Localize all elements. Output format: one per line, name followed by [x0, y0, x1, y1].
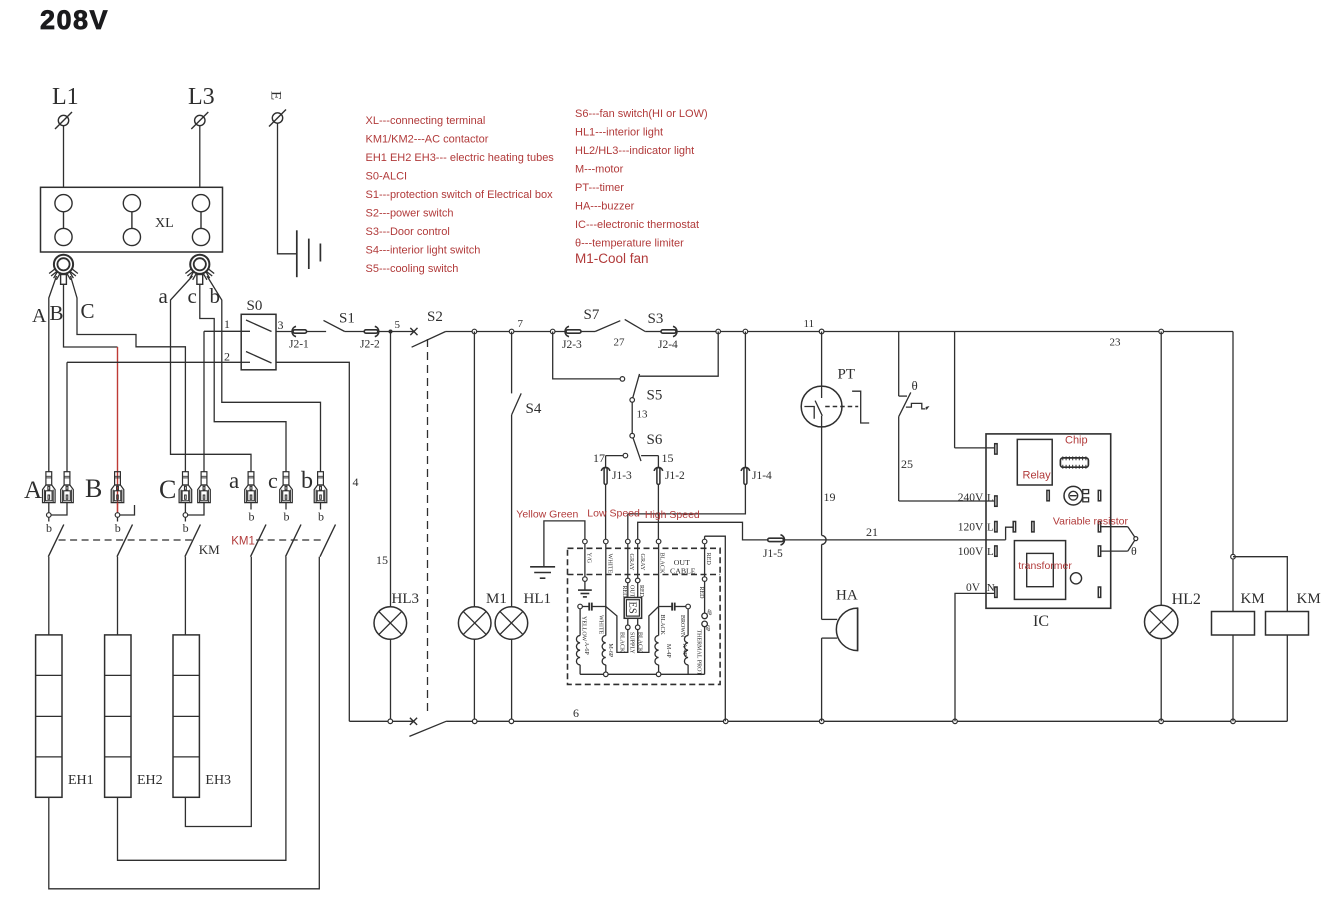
- svg-text:b: b: [115, 521, 121, 535]
- svg-text:θ: θ: [1131, 544, 1137, 558]
- svg-text:6: 6: [573, 706, 579, 720]
- svg-text:WHITE: WHITE: [606, 554, 613, 574]
- svg-text:θ: θ: [912, 378, 918, 393]
- svg-text:BLACK: BLACK: [637, 632, 643, 653]
- svg-text:IC---electronic thermostat: IC---electronic thermostat: [575, 219, 699, 231]
- svg-text:Relay: Relay: [1023, 470, 1052, 482]
- svg-text:HL3: HL3: [392, 591, 420, 607]
- svg-text:Chip: Chip: [1065, 435, 1088, 447]
- svg-text:C: C: [81, 299, 95, 323]
- svg-text:A-4P: A-4P: [681, 644, 687, 657]
- svg-text:BLACK: BLACK: [659, 553, 666, 575]
- svg-text:RED: RED: [621, 586, 627, 599]
- svg-text:HA---buzzer: HA---buzzer: [575, 201, 635, 213]
- svg-text:5: 5: [395, 319, 401, 331]
- svg-text:Low Speed: Low Speed: [587, 508, 640, 520]
- svg-text:b: b: [318, 510, 324, 524]
- svg-text:J2-3: J2-3: [562, 339, 582, 351]
- svg-text:23: 23: [1110, 337, 1122, 349]
- svg-text:N: N: [987, 582, 995, 594]
- svg-text:GRAY: GRAY: [639, 554, 646, 571]
- svg-text:THERMAL PROT: THERMAL PROT: [695, 630, 701, 676]
- svg-text:J1-4: J1-4: [752, 470, 772, 482]
- svg-text:ES: ES: [626, 602, 637, 614]
- svg-text:S2---power switch: S2---power switch: [366, 208, 454, 220]
- svg-text:2: 2: [224, 350, 230, 364]
- svg-text:240V: 240V: [958, 492, 984, 504]
- svg-text:0V: 0V: [966, 582, 981, 594]
- svg-text:A: A: [24, 477, 42, 504]
- svg-text:S3: S3: [648, 311, 664, 327]
- svg-text:S4---interior light switch: S4---interior light switch: [366, 245, 481, 257]
- svg-text:PT---timer: PT---timer: [575, 182, 624, 194]
- svg-text:4P: 4P: [705, 609, 711, 616]
- svg-text:b: b: [249, 510, 255, 524]
- svg-text:S2: S2: [427, 309, 443, 325]
- svg-text:a: a: [159, 284, 169, 308]
- svg-text:15: 15: [662, 451, 674, 465]
- svg-text:RED: RED: [705, 553, 712, 566]
- svg-text:RED: RED: [638, 585, 644, 598]
- svg-text:J1-2: J1-2: [665, 470, 685, 482]
- svg-text:KM1: KM1: [231, 536, 255, 548]
- svg-text:A: A: [32, 305, 47, 327]
- svg-text:25: 25: [901, 457, 913, 471]
- svg-text:J2-2: J2-2: [360, 339, 380, 351]
- svg-text:S1---protection switch of Elec: S1---protection switch of Electrical box: [366, 189, 554, 201]
- svg-text:100V: 100V: [958, 546, 984, 558]
- svg-text:M1-Cool fan: M1-Cool fan: [575, 251, 649, 266]
- svg-text:S6---fan switch(HI or LOW): S6---fan switch(HI or LOW): [575, 108, 708, 120]
- svg-text:b: b: [46, 521, 52, 535]
- svg-text:BLACK: BLACK: [619, 632, 625, 653]
- svg-text:KM1/KM2---AC contactor: KM1/KM2---AC contactor: [366, 134, 489, 146]
- svg-text:Yellow Green: Yellow Green: [516, 509, 578, 521]
- svg-text:L: L: [987, 546, 994, 558]
- svg-text:GRAY: GRAY: [628, 554, 635, 571]
- svg-text:3: 3: [278, 318, 284, 332]
- svg-text:BROWN: BROWN: [679, 615, 685, 638]
- svg-text:KM: KM: [199, 542, 220, 557]
- svg-text:c: c: [268, 468, 278, 493]
- svg-text:27: 27: [614, 337, 626, 349]
- svg-text:S0: S0: [247, 298, 263, 314]
- svg-text:b: b: [284, 510, 290, 524]
- svg-text:EH2: EH2: [137, 773, 163, 788]
- svg-text:KM: KM: [1297, 591, 1321, 607]
- svg-text:RED: RED: [698, 587, 704, 600]
- svg-text:E: E: [268, 91, 284, 100]
- svg-text:θ---temperature limiter: θ---temperature limiter: [575, 238, 684, 250]
- svg-text:17: 17: [593, 451, 605, 465]
- svg-text:transformer: transformer: [1018, 560, 1072, 572]
- svg-text:M-6P: M-6P: [607, 644, 613, 658]
- svg-text:L: L: [987, 492, 994, 504]
- svg-text:BLACK: BLACK: [659, 615, 665, 636]
- svg-text:4: 4: [353, 475, 359, 489]
- svg-text:XL---connecting terminal: XL---connecting terminal: [366, 115, 486, 127]
- svg-text:Variable resistor: Variable resistor: [1053, 516, 1129, 528]
- svg-text:Y/G: Y/G: [586, 553, 593, 564]
- svg-text:EH3: EH3: [205, 773, 231, 788]
- svg-text:11: 11: [804, 318, 815, 330]
- svg-text:120V: 120V: [958, 522, 984, 534]
- svg-text:HL1: HL1: [524, 591, 552, 607]
- svg-text:HL2/HL3---indicator light: HL2/HL3---indicator light: [575, 145, 694, 157]
- svg-text:S4: S4: [526, 401, 542, 417]
- svg-text:High Speed: High Speed: [645, 509, 700, 521]
- svg-text:b: b: [301, 468, 313, 494]
- svg-text:WHITE: WHITE: [598, 615, 604, 635]
- svg-text:J1-5: J1-5: [763, 548, 783, 560]
- svg-text:EH1 EH2 EH3--- electric heatin: EH1 EH2 EH3--- electric heating tubes: [366, 152, 555, 164]
- svg-text:b: b: [183, 521, 189, 535]
- svg-text:EH1: EH1: [68, 773, 94, 788]
- svg-text:J1-3: J1-3: [612, 470, 632, 482]
- svg-text:HL2: HL2: [1172, 591, 1201, 608]
- svg-text:M1: M1: [486, 591, 507, 607]
- svg-text:A-6P: A-6P: [583, 642, 589, 655]
- svg-text:B: B: [50, 301, 64, 325]
- svg-text:19: 19: [824, 490, 836, 504]
- svg-text:B: B: [85, 474, 102, 503]
- svg-text:13: 13: [637, 409, 649, 421]
- svg-text:OUT: OUT: [629, 585, 635, 598]
- svg-text:21: 21: [866, 525, 878, 539]
- svg-text:XL: XL: [155, 216, 174, 231]
- svg-text:15: 15: [376, 553, 388, 567]
- svg-text:208V: 208V: [40, 5, 109, 35]
- svg-text:HL1---interior light: HL1---interior light: [575, 127, 663, 139]
- svg-text:6P: 6P: [704, 625, 710, 632]
- svg-text:1: 1: [224, 317, 230, 331]
- svg-text:7: 7: [518, 318, 524, 330]
- svg-text:c: c: [188, 284, 197, 308]
- svg-text:KM: KM: [1241, 591, 1265, 607]
- svg-text:L3: L3: [188, 84, 215, 110]
- svg-text:S0-ALCI: S0-ALCI: [366, 171, 408, 183]
- svg-text:S1: S1: [339, 311, 355, 327]
- svg-text:L1: L1: [52, 84, 79, 110]
- svg-text:a: a: [229, 468, 239, 493]
- svg-text:J2-1: J2-1: [289, 339, 309, 351]
- svg-text:M---motor: M---motor: [575, 164, 624, 176]
- svg-text:S6: S6: [647, 432, 663, 448]
- svg-text:S7: S7: [584, 307, 600, 323]
- svg-text:IC: IC: [1033, 613, 1049, 630]
- svg-text:PT: PT: [838, 367, 856, 383]
- svg-text:L: L: [987, 522, 994, 534]
- svg-text:b: b: [210, 284, 221, 308]
- svg-text:M-4P: M-4P: [665, 644, 671, 658]
- svg-text:SUPPLY: SUPPLY: [629, 632, 635, 654]
- svg-text:CABLE: CABLE: [670, 567, 696, 576]
- svg-text:S5---cooling switch: S5---cooling switch: [366, 263, 459, 275]
- svg-text:J2-4: J2-4: [658, 339, 678, 351]
- svg-text:HA: HA: [836, 588, 858, 604]
- svg-text:S3---Door control: S3---Door control: [366, 226, 450, 238]
- svg-text:S5: S5: [647, 388, 663, 404]
- svg-text:C: C: [159, 475, 176, 504]
- svg-text:YELLOW: YELLOW: [580, 616, 586, 642]
